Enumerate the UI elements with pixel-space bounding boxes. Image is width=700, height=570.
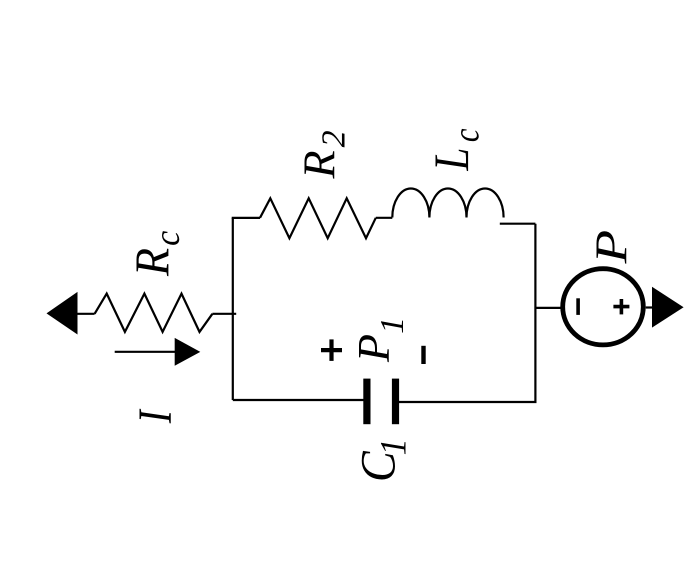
svg-text:I: I [130, 408, 182, 424]
svg-text:R2: R2 [294, 130, 353, 179]
svg-text:C1: C1 [351, 438, 414, 482]
svg-text:Lc: Lc [423, 129, 487, 172]
svg-text:Rc: Rc [127, 230, 188, 277]
svg-text:P1: P1 [348, 317, 411, 363]
svg-text:P: P [586, 230, 637, 265]
